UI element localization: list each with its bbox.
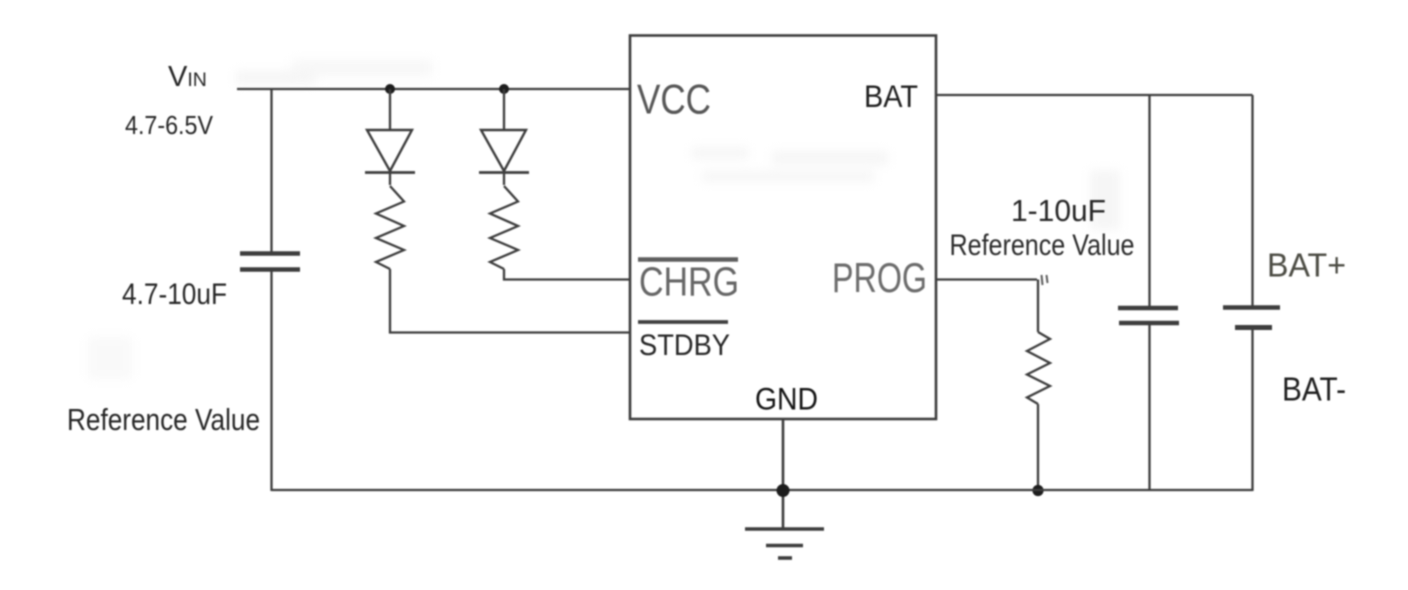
LED D2 xyxy=(479,89,529,185)
wire bottom ground rail xyxy=(272,489,1253,491)
wire input cap branch upper xyxy=(270,89,272,253)
op-amp U1 charger IC box xyxy=(630,36,936,420)
wire R3 upper lead xyxy=(1037,280,1039,333)
svg-text:CHRG: CHRG xyxy=(639,259,739,305)
battery BT1 plates xyxy=(1223,308,1280,328)
LED D1 xyxy=(365,89,415,185)
wire R1 to STDBY xyxy=(390,269,630,333)
capacitor C1 input 4.7-10uF xyxy=(240,254,300,270)
battery BT1 lower lead xyxy=(1251,328,1253,492)
wire PROG to R3 xyxy=(936,278,1037,280)
wire top rail VIN to VCC xyxy=(237,88,630,90)
svg-text:GND: GND xyxy=(755,381,818,417)
pin label STDBY with overline xyxy=(638,322,730,362)
wire R3 lower lead xyxy=(1037,404,1039,491)
svg-text:1-10uF: 1-10uF xyxy=(1011,193,1106,228)
svg-text:4.7-6.5V: 4.7-6.5V xyxy=(125,110,214,140)
node junction dot R3-ground rail xyxy=(1032,485,1043,496)
wire output cap branch lower xyxy=(1148,323,1150,491)
resistor R3 PROG program resistor xyxy=(1027,332,1050,404)
node junction dot GND-rail xyxy=(777,484,790,497)
wire R2 to CHRG xyxy=(504,269,630,280)
battery BT1 upper lead xyxy=(1251,95,1253,307)
pin label CHRG with overline xyxy=(638,259,739,305)
svg-text:BAT: BAT xyxy=(864,78,918,114)
svg-text:4.7-10uF: 4.7-10uF xyxy=(122,278,227,311)
svg-text:STDBY: STDBY xyxy=(639,329,730,362)
resistor R1 xyxy=(376,186,404,269)
wire output cap branch upper xyxy=(1148,95,1150,307)
capacitor C2 output xyxy=(1118,308,1179,323)
resistor R2 xyxy=(490,186,518,269)
node junction dot 2 xyxy=(499,84,509,94)
tick marks artifact at PROG wire end xyxy=(1042,275,1048,285)
wire input cap branch lower xyxy=(270,270,272,492)
svg-text:BAT+: BAT+ xyxy=(1267,248,1346,285)
svg-text:BAT-: BAT- xyxy=(1282,371,1346,408)
svg-text:Reference Value: Reference Value xyxy=(67,402,260,437)
wire BAT rail xyxy=(936,94,1253,96)
ground symbol xyxy=(745,529,824,558)
svg-text:VIN: VIN xyxy=(168,61,207,93)
svg-text:VCC: VCC xyxy=(637,76,711,123)
node junction dot 1 xyxy=(385,84,395,94)
wire GND pin stub xyxy=(782,419,785,529)
svg-text:Reference Value: Reference Value xyxy=(950,229,1135,262)
svg-text:PROG: PROG xyxy=(832,254,927,301)
